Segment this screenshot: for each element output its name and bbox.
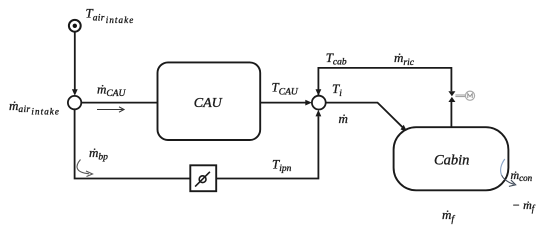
wire CAU to junction J2 (arrow right) — [260, 100, 312, 106]
junction J2 (mixing node) — [312, 96, 326, 110]
motor M (actuator of valve V2) — [455, 91, 474, 100]
wire J1 to CAU — [81, 102, 157, 104]
wire valve V2 to cabin — [450, 102, 452, 127]
valve V2 (two facing triangles on recirc line) — [448, 91, 455, 102]
wire sensor to junction J1 (vertical, arrow down) — [72, 32, 78, 96]
bypass wire: J1 down, across bottom through valve V1, up to J2 (T_ipn) — [75, 109, 322, 178]
curved flow arrow at bypass corner — [77, 160, 93, 177]
junction J1 (mixing node) — [68, 96, 81, 109]
valve V1 (box with circle and slash) on bypass line — [190, 165, 216, 191]
curved leakage arrow m_con at cabin right — [501, 159, 516, 186]
sensor T_air_intake (circle with dot) — [69, 20, 81, 32]
recirculation wire: J2 up, across top, down to valve (T_cab / m_ric) — [316, 68, 452, 96]
svg-text:Cabin: Cabin — [434, 152, 469, 168]
svg-text:CAU: CAU — [194, 96, 223, 111]
block Cabin — [394, 127, 509, 190]
flow arrow under m_dot_CAU — [97, 107, 124, 112]
block CAU — [158, 62, 261, 140]
svg-text:ṁ: ṁ — [339, 111, 348, 126]
wire J2 to cabin (horizontal then diagonal, arrow) — [326, 103, 407, 132]
